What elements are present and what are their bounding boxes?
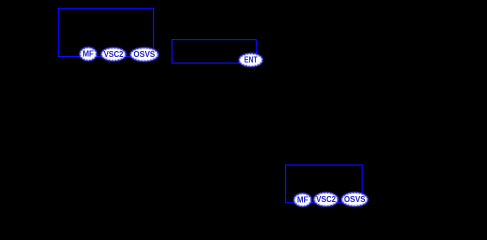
svg-text:OSVS: OSVS [344, 195, 366, 204]
svg-text:MF: MF [83, 50, 94, 59]
port ellipse OSVS on node 3 [341, 192, 368, 206]
port ellipse VSC2 on node 1 [101, 48, 126, 61]
port ellipse ENT on node 2 [239, 53, 263, 66]
svg-text:ENT: ENT [244, 56, 257, 65]
rectangle page node 3 (bottom-right) [286, 165, 363, 203]
svg-text:VSC2: VSC2 [104, 50, 124, 59]
svg-text:OSVS: OSVS [134, 50, 156, 59]
rectangle page node 2 (middle) [172, 40, 256, 64]
rectangle page node 1 (top-left) [58, 8, 153, 56]
svg-text:MF: MF [297, 196, 308, 205]
port ellipse VSC2 on node 3 [314, 192, 338, 206]
svg-text:VSC2: VSC2 [316, 195, 336, 204]
port ellipse OSVS on node 1 [130, 48, 158, 62]
port ellipse MF on node 3 [294, 193, 312, 206]
port ellipse MF on node 1 [80, 47, 97, 60]
